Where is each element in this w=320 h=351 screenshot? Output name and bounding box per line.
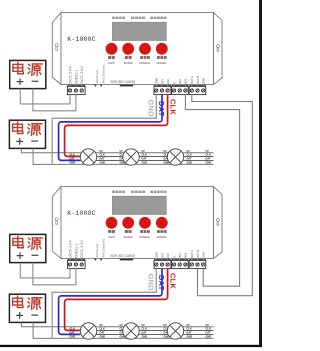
svg-text:5V: 5V [120,323,123,327]
svg-text:5V: 5V [206,323,209,327]
svg-text:DC5-24V: DC5-24V [79,240,84,258]
wire cascade A U1 to U2 [192,95,253,296]
page bottom border [0,345,262,347]
LCD display U1 [112,22,166,40]
wire GND bus row 2 (PS4-) [33,322,213,338]
svg-text:DAT: DAT [100,331,106,335]
button SPEED+ U2 [139,217,151,229]
svg-text:CLK: CLK [206,153,211,157]
wire GND bus row 1 (PS2-) [33,148,213,164]
svg-text:IN B: IN B [184,253,188,258]
svg-text:DC5-24V: DC5-24V [68,240,73,258]
terminal block power U2 [68,259,86,269]
svg-text:G: G [172,82,176,84]
svg-text:SD¶ (SD CARD): SD¶ (SD CARD) [110,254,135,258]
svg-text:OUT A: OUT A [190,76,194,84]
svg-text:OUT B: OUT B [196,76,200,84]
svg-text:DAT: DAT [160,252,164,258]
svg-text:DAT: DAT [187,157,193,161]
mounting keyhole right U1 [216,45,219,52]
svg-text:GND: GND [155,252,159,258]
wire DAT from U1 to lamp row 1 [59,95,162,161]
svg-text:OUT A: OUT A [190,250,194,258]
wire PS1+ to U1 DC5-24V [20,89,70,104]
svg-text:CLK: CLK [169,99,178,115]
svg-text:5V: 5V [164,149,167,153]
svg-text:SPEED-: SPEED- [156,61,167,65]
svg-text:DAT: DAT [157,275,166,291]
wire PS1- to U1 GND [33,89,76,111]
controller U2 K-1000C body [52,187,222,259]
SD card slot U1 [120,85,133,87]
svg-text:GND: GND [70,335,76,339]
svg-text:GND: GND [70,161,76,165]
svg-text:MODE: MODE [124,235,133,239]
page right border [259,0,262,347]
wire DAT bus row 1 [80,159,214,161]
svg-text:5V: 5V [100,149,103,153]
svg-text:DC5-24V: DC5-24V [79,66,84,84]
svg-text:##(level): ##(level) [95,70,99,83]
svg-text:5V: 5V [187,323,190,327]
power supply PS4 [9,294,45,322]
terminal block port-C U2 [189,259,206,269]
lamp LP22 [123,323,139,339]
controller U1 K-1000C body [52,13,222,85]
svg-text:GND: GND [147,100,156,118]
svg-text:##(level): ##(level) [95,244,99,257]
lamp LP13 [167,149,183,165]
svg-text:5V: 5V [206,149,209,153]
svg-text:5V: 5V [120,149,123,153]
LCD display U2 [112,196,166,214]
svg-text:SPEED+: SPEED+ [139,61,151,65]
button SPEED- U1 [156,43,168,55]
svg-text:DAT: DAT [70,157,76,161]
wire cascade B U1 to U2 [185,95,239,287]
svg-text:##(Channel): ##(Channel) [101,65,105,84]
svg-text:IN A: IN A [178,253,182,258]
svg-text:DAT: DAT [70,331,76,335]
svg-text:5V: 5V [100,323,103,327]
wire DAT from U2 to lamp row 2 [59,269,162,335]
svg-text:SD¶ (SD CARD): SD¶ (SD CARD) [110,80,135,84]
svg-text:DAT: DAT [187,331,193,335]
svg-text:GND: GND [142,161,148,165]
button SPEED+ U1 [139,43,151,55]
svg-text:GND: GND [100,161,106,165]
lamp LP11 [80,149,96,165]
terminal block SPI out U2 [154,259,171,269]
wire CLK from U2 to lamp row 2 [65,269,168,331]
svg-text:GND: GND [155,78,159,84]
lamp LP21 [80,323,96,339]
svg-text:CLK: CLK [169,273,178,289]
svg-text:SPEED-: SPEED- [156,235,167,239]
wire 5V bus row 2 (PS4+) [21,322,213,326]
svg-text:CLK: CLK [166,79,170,84]
tiny header captions U1 [112,17,115,19]
lamp LP12 [123,149,139,165]
mounting keyhole left U2 [55,218,58,225]
svg-text:GND: GND [187,161,193,165]
svg-text:DAT: DAT [160,78,164,84]
svg-text:GND: GND [206,161,212,165]
wire 5V bus row 1 (PS2+) [21,148,213,152]
svg-text:GND: GND [187,335,193,339]
wire GND from U1 to bus row 1 [52,95,156,165]
power supply PS3 [10,234,46,262]
button CHIP U2 [106,217,118,229]
svg-text:CLK: CLK [142,153,147,157]
svg-text:5V: 5V [142,149,145,153]
button MODE U2 [122,217,134,229]
tiny header captions U2 [112,191,115,193]
bus wire tags row 1 [70,149,212,165]
svg-text:DAT: DAT [142,331,148,335]
wire CLK bus row 2 [80,329,214,331]
button CHIP U1 [106,43,118,55]
power supply PS2 [9,120,45,148]
svg-text:CLK: CLK [100,327,105,331]
svg-text:DC5-24V: DC5-24V [68,66,73,84]
svg-text:CLK: CLK [142,327,147,331]
svg-text:GND: GND [142,335,148,339]
svg-text:CLK: CLK [70,153,75,157]
svg-text:DAT: DAT [206,331,212,335]
terminal block port-B U2 [172,259,189,269]
svg-text:5V: 5V [142,323,145,327]
svg-text:MODE: MODE [124,61,133,65]
svg-text:OUT B: OUT B [196,250,200,258]
terminal block port-C U1 [189,85,206,95]
wire DAT bus row 2 [80,333,214,335]
svg-text:IN B: IN B [184,79,188,84]
wire CLK from U1 to lamp row 1 [65,95,168,157]
svg-text:CLK: CLK [70,327,75,331]
bus wire tags row 2 [70,323,212,339]
wire CLK bus row 1 [80,155,214,157]
SD card slot U2 [120,259,133,261]
svg-text:GND(-): GND(-) [73,243,78,258]
svg-text:DAT: DAT [142,157,148,161]
mounting keyhole left U1 [55,44,58,51]
svg-text:DAT: DAT [100,157,106,161]
svg-text:CLK: CLK [187,153,192,157]
svg-text:5V: 5V [164,323,167,327]
svg-text:CLK: CLK [187,327,192,331]
svg-text:GND: GND [202,78,206,84]
svg-text:SPEED+: SPEED+ [139,235,151,239]
wire PS3+ to U2 DC5-24V [20,263,70,278]
svg-text:CHIP: CHIP [108,61,115,65]
wire PS3- to U2 GND [33,263,76,285]
terminal block power U1 [68,85,86,95]
svg-text:IN A: IN A [178,79,182,84]
wire GND from U2 to bus row 2 [52,269,156,339]
power supply PS1 [10,60,46,88]
svg-text:GND: GND [100,335,106,339]
svg-text:CLK: CLK [100,153,105,157]
svg-text:GND: GND [147,274,156,292]
svg-text:GND(-): GND(-) [73,69,78,84]
svg-text:GND: GND [202,252,206,258]
terminal block port-B U1 [172,85,189,95]
svg-text:DAT: DAT [206,157,212,161]
svg-text:K-1000C: K-1000C [67,210,95,217]
svg-text:5V: 5V [187,149,190,153]
mounting keyhole right U2 [216,219,219,226]
lamp LP23 [167,323,183,339]
svg-text:##(Channel): ##(Channel) [101,239,105,258]
svg-text:CLK: CLK [206,327,211,331]
svg-text:CHIP: CHIP [108,235,115,239]
svg-text:G: G [172,256,176,258]
button SPEED- U2 [156,217,168,229]
terminal block SPI out U1 [154,85,171,95]
svg-text:GND: GND [206,335,212,339]
svg-text:K-1000C: K-1000C [67,36,95,43]
svg-text:CLK: CLK [166,253,170,258]
svg-text:DAT: DAT [157,101,166,117]
button MODE U1 [122,43,134,55]
